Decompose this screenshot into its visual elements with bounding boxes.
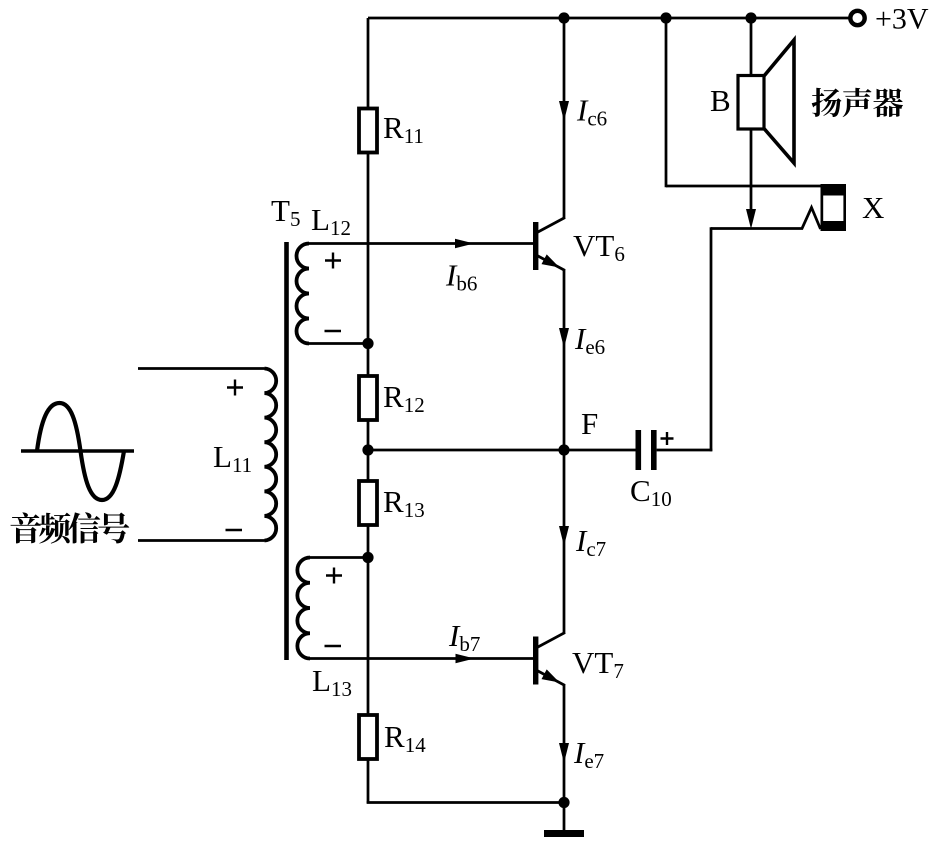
wire L11 bottom lead: [138, 539, 265, 542]
current arrow Ie7: [559, 743, 569, 763]
wire bottom: corner to emitter ground node: [367, 801, 564, 804]
wire left rail: junction to R12: [367, 344, 370, 377]
wire node F to VT7 collector: [563, 450, 566, 634]
wire L11 top lead: [138, 367, 265, 370]
resistor R13: [359, 481, 377, 525]
current arrow Ib6: [455, 239, 474, 249]
wire left rail: junction down to R14: [367, 557, 370, 716]
junction top rail / VT6 collector: [558, 12, 569, 23]
wire left rail: R11 to L12 bottom junction: [367, 152, 370, 344]
transistor VT6: [533, 218, 565, 271]
polarity + of L11: [227, 380, 243, 396]
wire left rail: R12 to F-row junction: [367, 419, 370, 450]
wire jack branch: across to jack sleeve: [666, 185, 822, 188]
wire VT7 emitter to ground node: [563, 685, 566, 803]
wire left rail: junction to R13: [367, 450, 370, 482]
label 扬声器 (loudspeaker): [812, 88, 903, 117]
svg-text:F: F: [581, 406, 598, 441]
winding L11 (primary): [265, 369, 277, 541]
svg-text:+3V: +3V: [875, 3, 929, 36]
polarity - of L12: [325, 330, 342, 333]
svg-text:B: B: [710, 83, 731, 118]
wire left rail: R14 to bottom corner: [367, 759, 370, 804]
junction emitter / ground: [558, 797, 569, 808]
current arrow Ie6: [559, 328, 569, 348]
wire speaker branch: top rail to speaker: [750, 18, 753, 78]
wire right riser to jack contact: [710, 227, 713, 451]
wire L12 bottom to junction: [308, 342, 368, 345]
label 音频信号 (audio signal): [10, 512, 129, 543]
arrow onto jack contact: [746, 209, 756, 229]
wire top +3V rail: [368, 17, 850, 20]
resistor R11: [359, 109, 377, 153]
polarity + of L13: [326, 568, 342, 584]
current arrow Ic7: [559, 526, 569, 546]
capacitor C10 plate right: [651, 430, 657, 470]
junction node F: [558, 444, 569, 455]
capacitor C10 plate left: [636, 430, 642, 470]
wire C10 to right riser: [657, 449, 713, 452]
wire L13 top to junction: [309, 556, 368, 559]
current arrow Ib7: [456, 654, 475, 664]
wire speaker to jack moving contact: [750, 129, 753, 210]
terminal +3V supply: [850, 11, 864, 25]
wire VT6 base: [309, 242, 534, 245]
speaker B: [738, 40, 794, 163]
wire jack branch: top rail down: [665, 18, 668, 187]
polarity - of L11: [226, 529, 243, 532]
polarity + of L12: [325, 253, 341, 269]
junction top rail / speaker branch: [745, 12, 756, 23]
polarity + of C10: [661, 432, 674, 445]
wire node F row: junction to C10: [368, 449, 636, 452]
wire VT6 collector rail from top: [563, 18, 566, 219]
winding L12 (secondary, to VT6 base): [297, 244, 310, 344]
audio signal sine wave: [37, 403, 124, 500]
wire left rail: R13 to L13 top junction: [367, 525, 370, 558]
winding L13 (secondary, to VT7 base): [297, 558, 310, 659]
wire left rail: top rail to R11: [367, 18, 370, 109]
junction R13 / R14 / L13+: [362, 552, 373, 563]
earphone jack X contact spring: [711, 208, 821, 230]
polarity - of L13: [325, 645, 342, 648]
junction L12- / R12: [362, 338, 373, 349]
transistor VT7: [533, 633, 565, 686]
current arrow Ic6: [559, 101, 569, 121]
wire VT7 base / L13 bottom: [309, 657, 534, 660]
resistor R14: [359, 715, 377, 759]
audio signal source axis line: [21, 449, 134, 452]
ground symbol: [544, 803, 584, 838]
junction R12 / R13 / F row: [362, 444, 373, 455]
resistor R12: [359, 376, 377, 420]
svg-text:X: X: [862, 190, 884, 225]
earphone jack X sleeve: [821, 184, 847, 231]
transformer T5 core: [284, 242, 289, 660]
wire VT6 emitter to node F: [563, 270, 566, 450]
junction top rail / jack branch: [660, 12, 671, 23]
